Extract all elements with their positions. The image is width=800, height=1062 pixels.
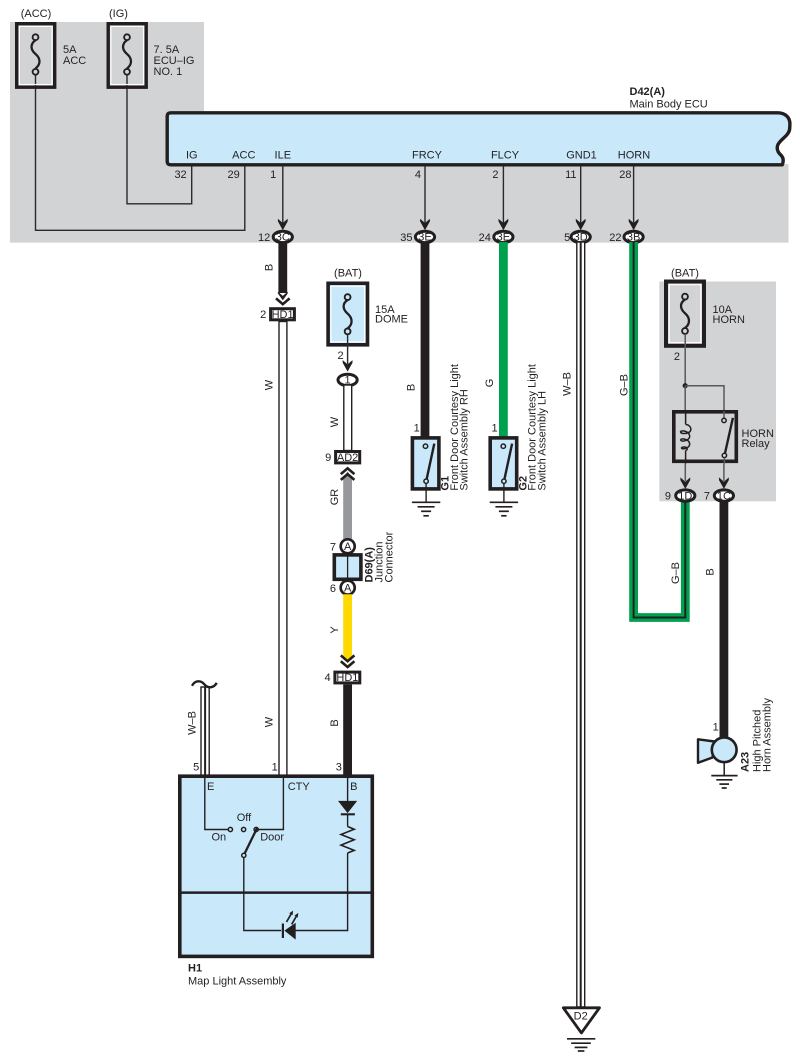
svg-text:5: 5 [193,762,199,774]
connector oval 1 (DOME) [338,360,357,386]
svg-text:GND1: GND1 [566,150,597,162]
svg-text:22: 22 [609,232,621,244]
ground G1 [412,502,440,516]
svg-text:W–B: W–B [561,372,573,396]
connector 22 3B [609,219,643,244]
svg-text:ACC: ACC [63,55,86,67]
junction connector D69(A) circle 7 A [330,539,355,553]
wire GR (gray) from AD2 up-arrow down to junction connector [329,468,354,539]
switch contact Door [254,827,258,831]
svg-text:H1: H1 [188,963,202,975]
fuse (BAT) 15A DOME [328,268,408,345]
wire relay switch to 1C [723,464,725,482]
svg-text:W: W [329,416,341,427]
svg-text:28: 28 [619,169,631,181]
svg-text:(ACC): (ACC) [21,8,52,20]
connector 24 3E [479,219,513,244]
svg-text:3C: 3C [276,232,290,244]
junction node dot [683,383,688,388]
svg-text:1: 1 [713,722,719,734]
wire B (black) FRCY from 3E to G1 [405,242,429,438]
wire W-B (white/black) map light E pin up to break symbol [187,681,217,776]
svg-text:NO. 1: NO. 1 [154,66,183,78]
switch lever [245,828,258,854]
svg-text:HORN: HORN [713,314,745,326]
svg-text:7: 7 [704,491,710,503]
svg-text:FRCY: FRCY [412,150,443,162]
svg-text:4: 4 [324,672,330,684]
ground G2 [490,502,518,516]
wire fuse DOME pin 2 to connector 1 [347,334,349,364]
wire node down to relay coil [684,386,686,411]
ground point D2 triangle [563,1008,599,1033]
svg-text:1D: 1D [678,490,692,502]
svg-text:G–B: G–B [670,562,682,584]
svg-text:4: 4 [415,169,421,181]
wire ECU pin 28 HORN drop [633,166,635,223]
svg-text:2: 2 [674,351,680,363]
svg-text:W: W [264,716,276,727]
svg-text:DOME: DOME [375,314,408,326]
wire relay coil to 1D [684,464,686,482]
wire B (black) from 1C to horn A23 [704,501,728,738]
switch pivot [242,853,246,857]
wire fuse HORN pin 2 down to junction node [684,334,686,386]
courtesy switch G1 box [412,364,470,502]
svg-text:FLCY: FLCY [491,150,520,162]
svg-text:3E: 3E [497,232,510,244]
junction connector D69(A) box [334,531,395,582]
svg-text:Connector: Connector [383,531,395,582]
switch labels [211,812,284,844]
svg-text:Horn Assembly: Horn Assembly [762,698,774,772]
svg-text:(BAT): (BAT) [671,268,699,280]
svg-text:2: 2 [260,309,266,321]
svg-text:1C: 1C [717,490,731,502]
svg-text:Map Light Assembly: Map Light Assembly [188,976,287,988]
relay switch [722,411,733,464]
svg-text:HD1: HD1 [272,309,294,321]
resistor (map light) [341,827,354,854]
svg-text:B: B [350,781,357,793]
wire pivot down to LED row [244,858,281,931]
relay HORN Relay box [674,412,774,462]
svg-text:2: 2 [337,350,343,362]
svg-text:HORN: HORN [618,150,650,162]
svg-text:G: G [484,379,496,388]
ground symbol D2 [567,1039,595,1051]
svg-text:Switch Assembly LH: Switch Assembly LH [537,391,549,491]
svg-text:1: 1 [272,762,278,774]
fuse (IG) 7.5A ECU-IG NO.1 [108,8,194,87]
wire ECU pin 4 FRCY drop [424,166,426,223]
map light switch wiring CTY to Door [259,777,284,830]
svg-text:29: 29 [228,169,240,181]
LED (map light) [283,911,298,940]
wire diode to resistor [347,814,349,826]
svg-text:B: B [704,568,716,575]
svg-text:Off: Off [237,812,252,824]
svg-text:ILE: ILE [275,150,292,162]
wire W-B (white/black) GND1 from 3D to D2 [561,242,584,1007]
courtesy switch G2 box [490,364,548,502]
svg-text:A: A [344,582,352,594]
wire B (black) from HD1 to map light pin 3 [329,685,352,777]
wire ACC fuse to ECU pin 29 [36,75,245,230]
svg-text:9: 9 [665,491,671,503]
wire W (white) from oval 1 to AD2 [329,385,352,451]
gray power-source panel (top) [10,22,789,243]
op ECU D42(A) Main Body ECU box [167,86,790,165]
horn A23 symbol [698,698,774,772]
fuse (ACC) 5A [17,8,87,87]
connector box 2 HD1 [260,309,294,322]
relay coil [681,411,691,464]
svg-text:D42(A): D42(A) [630,86,666,98]
connector 7 1C [704,477,734,502]
wire G (green) FLCY from 3E to G2 [484,242,508,438]
svg-text:24: 24 [479,232,491,244]
svg-text:5: 5 [564,232,570,244]
svg-text:Switch Assembly RH: Switch Assembly RH [459,389,471,491]
svg-text:AD2: AD2 [337,452,358,464]
fuse (BAT) 10A HORN [666,268,745,346]
connector box 4 HD1 [324,672,359,684]
svg-text:2: 2 [492,169,498,181]
connector box 9 AD2 [325,452,360,465]
gray horn panel (right) [659,282,776,502]
svg-text:1: 1 [491,423,497,435]
svg-text:Door: Door [260,832,284,844]
wire Y (yellow) from circle 6 to HD1 [329,594,354,667]
svg-text:1: 1 [414,423,420,435]
ground A23 [711,762,737,788]
diode (map light) [338,801,357,814]
connector 9 1D [665,477,695,502]
wire W (white) from HD1 to map light CTY [264,322,287,777]
switch contact Off [242,827,246,831]
switch contact On [228,827,232,831]
svg-text:Main Body ECU: Main Body ECU [630,99,708,111]
svg-text:35: 35 [400,232,412,244]
svg-text:1: 1 [270,169,276,181]
wire ECU pin 2 FLCY drop [502,166,504,223]
connector 12 3C [258,219,292,244]
wire G-B (green/black) from 3B U-loop up to 1D [618,242,685,618]
svg-text:W–B: W–B [187,711,199,735]
svg-text:CTY: CTY [288,781,311,793]
svg-text:7: 7 [330,542,336,554]
wire B (black) from 3C to HD1 [263,242,289,304]
svg-text:3B: 3B [627,232,640,244]
map light switch wiring E to On [205,777,228,830]
wire B pin down to diode [347,777,349,801]
wire resistor down to LED row [296,853,348,931]
svg-text:A: A [344,541,352,553]
svg-text:IG: IG [186,150,198,162]
svg-text:B: B [405,384,417,391]
svg-text:D2: D2 [574,1011,588,1023]
connector 5 3D [564,219,590,244]
map light assembly H1 box [178,776,372,987]
svg-text:32: 32 [174,169,186,181]
wire IG fuse to ECU pin 32 [127,75,192,204]
svg-text:6: 6 [330,583,336,595]
svg-text:Y: Y [329,626,341,634]
svg-text:3E: 3E [418,232,431,244]
svg-text:(BAT): (BAT) [334,268,362,280]
svg-text:12: 12 [258,232,270,244]
svg-text:9: 9 [325,452,331,464]
svg-text:3: 3 [336,762,342,774]
svg-text:GR: GR [329,489,341,506]
svg-text:On: On [211,832,226,844]
svg-text:W: W [264,379,276,390]
wire ECU pin 1 ILE drop [282,166,284,223]
svg-text:E: E [207,781,214,793]
connector 35 3E [400,219,434,244]
svg-text:Relay: Relay [742,438,771,450]
wire node to relay switch branch [685,386,724,411]
svg-text:HD1: HD1 [336,672,358,684]
svg-text:G–B: G–B [618,374,630,396]
wire ECU pin 11 GND1 drop [580,166,582,223]
svg-text:(IG): (IG) [109,8,128,20]
svg-text:A23: A23 [740,752,752,772]
svg-text:B: B [263,264,275,271]
junction connector D69(A) circle 6 A [330,581,355,595]
svg-text:B: B [329,719,341,726]
svg-text:11: 11 [565,169,576,181]
svg-text:ACC: ACC [232,150,255,162]
